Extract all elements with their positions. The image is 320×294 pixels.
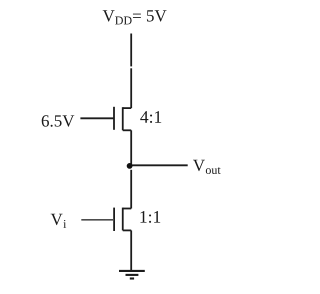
wire: output node to Vout label [130, 164, 187, 166]
M2 gate bar [113, 208, 115, 231]
ground symbol [119, 271, 145, 279]
label: Vi (M2 gate input) [51, 214, 66, 228]
label: VDD = 5V [103, 10, 167, 24]
junction node: Vout tap [127, 163, 133, 169]
M1 source jog [123, 129, 131, 131]
transistor M1 (upper, 4:1) [114, 107, 131, 131]
label: 4:1 (M1 ratio) [140, 111, 161, 123]
ground bar middle [126, 274, 139, 276]
wire: VDD vertical lower segment to M1 drain [130, 68, 132, 108]
M2 channel bar [122, 208, 124, 231]
label: Vout [193, 160, 221, 174]
wire: M2 gate to Vi label [81, 219, 114, 221]
M2 drain jog [123, 208, 131, 210]
wire: M1 source down to output node [130, 130, 132, 166]
M1 gate bar [113, 107, 115, 130]
wire: M1 gate to 6.5V label [80, 117, 114, 119]
M1 channel bar [122, 107, 124, 130]
wire: M2 source down to ground [130, 230, 132, 270]
wire: output node down to M2 drain [130, 170, 132, 209]
ground bar top [119, 270, 145, 272]
transistor M2 (lower, 1:1) [114, 208, 131, 231]
M1 drain jog [123, 107, 131, 109]
M2 source jog [123, 229, 131, 231]
wire: VDD vertical upper segment [130, 34, 132, 67]
label: 6.5V (M1 gate voltage) [42, 115, 75, 127]
label: 1:1 (M2 ratio) [140, 211, 160, 223]
ground bar bottom [130, 277, 134, 279]
